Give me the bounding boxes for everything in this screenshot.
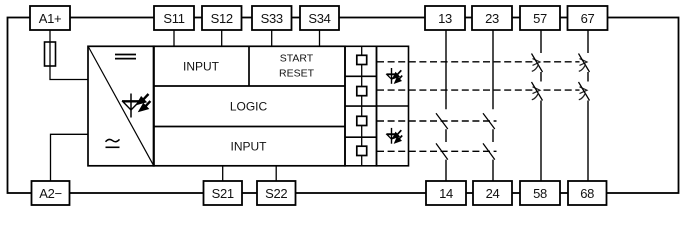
mechanical link dashed line level 2: [377, 89, 533, 91]
svg-text:S34: S34: [308, 11, 330, 26]
delayed contact 67 level2 blade: [579, 82, 590, 101]
wire S22 stub: [275, 166, 277, 182]
delayed contact 67 level1 blade: [579, 54, 590, 73]
svg-text:68: 68: [580, 186, 594, 201]
terminal S34: [300, 6, 339, 30]
svg-text:A2−: A2−: [39, 186, 62, 201]
device outline: [8, 18, 679, 194]
terminal S12: [202, 6, 242, 30]
svg-text:58: 58: [533, 186, 547, 201]
mechanical link dashed line level 3: [377, 120, 497, 122]
mechanical link dashed line level 1: [377, 61, 533, 63]
delay arc 67 level2: [579, 93, 586, 100]
coil column box: [345, 46, 377, 166]
divider input / start reset: [248, 46, 250, 86]
link arrow at 57 level 2: [533, 87, 541, 94]
svg-text:INPUT: INPUT: [231, 139, 268, 153]
contact 13-14 upper blade: [436, 113, 448, 129]
relay coil K1: [357, 46, 367, 76]
contact 23-24 upper blade: [483, 113, 495, 129]
wire terminal 67 to 68: [587, 29, 589, 182]
svg-text:24: 24: [486, 186, 500, 201]
contact 13-14 lower blade: [436, 143, 448, 159]
svg-text:S33: S33: [261, 11, 283, 26]
delayed contact 57 level1 blade: [532, 54, 543, 73]
wire S12 stub: [221, 29, 223, 46]
svg-text:67: 67: [581, 11, 595, 26]
coil cell dividers: [345, 76, 377, 137]
terminal 13: [425, 6, 465, 30]
svg-text:LOGIC: LOGIC: [230, 100, 268, 114]
svg-text:S11: S11: [163, 11, 184, 26]
wire S21 stub: [222, 166, 224, 182]
terminal S22: [257, 181, 296, 205]
relay coil K2: [357, 76, 367, 106]
row divider input/logic: [154, 85, 346, 87]
middle block outer: [154, 46, 346, 166]
svg-text:INPUT: INPUT: [183, 59, 220, 73]
terminal 58: [520, 181, 560, 205]
terminal A1+: [30, 6, 70, 30]
svg-text:RESET: RESET: [279, 67, 315, 79]
wire terminal 57 to 58: [540, 29, 542, 182]
svg-text:13: 13: [438, 11, 452, 26]
delay arc 57 level1: [532, 65, 539, 72]
terminal 68: [568, 181, 607, 205]
power supply U1 box: [88, 46, 154, 166]
wire S34 stub: [319, 29, 321, 46]
relay coil K4: [357, 137, 367, 166]
link arrow at 67 level 2: [580, 87, 588, 94]
wire S33 stub: [271, 29, 273, 46]
svg-text:57: 57: [533, 11, 547, 26]
svg-text:14: 14: [439, 186, 453, 201]
AC symbol ~: [106, 139, 120, 141]
terminal 67: [568, 6, 608, 30]
terminal 14: [426, 181, 466, 205]
svg-text:START: START: [280, 52, 314, 64]
terminal S33: [252, 6, 292, 30]
indicator LED D3: [386, 128, 396, 144]
fuse F1: [45, 42, 56, 66]
svg-text:S22: S22: [265, 186, 287, 201]
svg-text:23: 23: [485, 11, 499, 26]
delay arc 57 level2: [532, 93, 539, 100]
svg-text:S12: S12: [211, 11, 233, 26]
svg-text:S21: S21: [212, 186, 234, 201]
delayed contact 57 level2 blade: [532, 82, 543, 101]
indicator LED D2: [386, 68, 396, 84]
DC symbol =: [115, 55, 136, 59]
LED D1 (power): [122, 94, 140, 118]
terminal 57: [520, 6, 560, 30]
indicator LED D3 arrows: [393, 130, 402, 143]
svg-text:A1+: A1+: [39, 11, 62, 26]
terminal 24: [473, 181, 512, 205]
link arrow at 57 level 1: [533, 59, 541, 66]
terminal A2-: [32, 181, 70, 205]
delay arc 67 level1: [579, 65, 586, 72]
wire terminal 23 to 24: [492, 29, 494, 182]
wire terminal 13 to 14: [445, 29, 447, 182]
contact 23-24 lower blade: [483, 143, 495, 159]
row divider logic/input: [154, 126, 346, 128]
link arrow at 67 level 1: [580, 59, 588, 66]
LED column divider: [377, 105, 409, 107]
terminal S21: [204, 181, 243, 205]
wire A1+ to fuse to power supply: [50, 29, 88, 80]
mechanical link dashed line level 4: [377, 150, 497, 152]
power supply diagonal: [89, 47, 154, 165]
terminal S11: [154, 6, 194, 30]
wire S11 stub: [173, 29, 175, 46]
LED D1 arrows: [137, 94, 151, 111]
wire A2- to power supply: [51, 134, 89, 181]
indicator LED D2 arrows: [393, 70, 402, 83]
LED indicator column box: [377, 46, 409, 166]
terminal 23: [472, 6, 512, 30]
relay coil K3: [357, 106, 367, 137]
